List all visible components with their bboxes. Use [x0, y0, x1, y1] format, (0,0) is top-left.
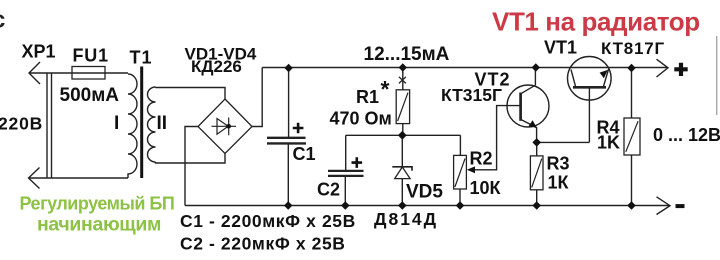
- wire R2 bottom lead: [459, 189, 461, 206]
- svg-text:С1 - 2200мкФ х 25В: С1 - 2200мкФ х 25В: [180, 211, 356, 231]
- junction VT2 emitter R3 VT1 base: [532, 138, 541, 147]
- output minus sign: [676, 204, 685, 208]
- junction bottom rail at R2: [456, 201, 465, 210]
- svg-text:КД226: КД226: [191, 57, 242, 76]
- right edge artifact line: [716, 36, 718, 115]
- wire C2 negative lead: [344, 176, 346, 206]
- transistor VT2 circle: [507, 85, 549, 127]
- svg-text:Д814Д: Д814Д: [374, 209, 438, 229]
- junction bottom rail at C2: [341, 201, 350, 210]
- junction top rail at R4: [627, 64, 635, 72]
- wire mains bottom from plug to transformer: [29, 177, 129, 179]
- svg-text:c: c: [0, 7, 5, 34]
- connector XP1 pin arrow top: [29, 62, 40, 84]
- svg-text:КТ817Г: КТ817Г: [601, 39, 665, 58]
- svg-text:XP1: XP1: [22, 42, 56, 62]
- potentiometer R2 body: [454, 155, 467, 189]
- transformer T1 primary winding I: [128, 74, 137, 178]
- bridge inner diode symbol: [212, 118, 237, 136]
- wire R2 top lead: [459, 135, 461, 155]
- wire break cross mark: [399, 77, 406, 84]
- junction mid node R1 VD5: [398, 131, 407, 140]
- svg-text:VD5: VD5: [406, 182, 443, 203]
- transistor VT2 collector to top rail: [521, 68, 536, 94]
- wire bottom rail minus net: [185, 205, 670, 207]
- wire mains top from plug to fuse and transformer: [29, 72, 128, 74]
- resistor R3 body: [530, 156, 543, 190]
- potentiometer R2 wiper arrow: [467, 166, 475, 173]
- svg-text:VT1 на радиатор: VT1 на радиатор: [492, 7, 700, 37]
- svg-text:R2: R2: [470, 149, 493, 169]
- junction top rail at C1: [284, 64, 292, 72]
- output minus terminal arrow: [657, 197, 671, 215]
- capacitor C1 plates: [267, 138, 306, 144]
- svg-text:R3: R3: [547, 154, 570, 174]
- svg-text:VT1: VT1: [544, 38, 577, 58]
- svg-text:0 ... 12В: 0 ... 12В: [653, 125, 720, 145]
- wire top rail plus net: [262, 67, 667, 69]
- junction top rail at VT2 collector: [532, 63, 540, 71]
- svg-text:С2 - 220мкФ х 25В: С2 - 220мкФ х 25В: [180, 234, 346, 254]
- svg-text:КТ315Г: КТ315Г: [441, 85, 502, 105]
- capacitor C2 polarity plus mark: [352, 157, 363, 168]
- svg-text:R1: R1: [356, 87, 379, 107]
- svg-text:Регулируемый БП: Регулируемый БП: [20, 193, 175, 213]
- resistor R4 body: [624, 118, 640, 155]
- transistor VT2 emitter: [521, 119, 537, 142]
- wire R4 bottom lead: [631, 155, 633, 206]
- svg-text:C2: C2: [317, 180, 340, 200]
- svg-text:I: I: [114, 113, 119, 134]
- connector XP1 double line: [47, 73, 52, 178]
- bridge inner diode dot: [226, 124, 231, 129]
- wire secondary bottom to bridge AC input: [156, 154, 226, 164]
- wire C1 positive lead: [288, 68, 290, 137]
- svg-text:500мА: 500мА: [60, 85, 120, 106]
- capacitor C1 polarity plus mark: [293, 123, 304, 134]
- wire secondary top to bridge AC input: [156, 88, 226, 100]
- transistor VT2 emitter arrow: [529, 120, 537, 128]
- transistor VT1 emitter: [603, 69, 608, 87]
- wire C1 negative lead: [287, 143, 289, 205]
- wire R1 bottom lead: [402, 124, 404, 136]
- transistor VT1 circle: [568, 57, 612, 101]
- wire mid node R1 C2 R2: [346, 134, 461, 136]
- fuse FU1: [72, 67, 105, 80]
- svg-text:470 Ом: 470 Ом: [330, 109, 392, 129]
- transformer T1 secondary winding II: [148, 87, 156, 162]
- transistor VT2 base bar: [519, 93, 522, 121]
- junction top rail at R1: [399, 63, 407, 71]
- junction bottom rail at VD5: [398, 201, 407, 210]
- svg-text:начинающим: начинающим: [37, 213, 161, 235]
- capacitor C2 plates: [328, 171, 364, 176]
- wire C2 positive lead: [345, 135, 347, 170]
- transistor VT1 emitter arrow: [600, 70, 608, 78]
- output plus sign: [674, 63, 687, 76]
- resistor R1 body: [396, 90, 409, 124]
- svg-text:C1: C1: [293, 144, 316, 164]
- svg-text:II: II: [157, 113, 168, 134]
- svg-text:1K: 1K: [597, 133, 620, 153]
- wire R1 top lead: [402, 68, 404, 90]
- wire VD5 anode lead: [401, 179, 403, 206]
- wire R4 top lead: [631, 68, 633, 118]
- svg-text:10К: 10К: [470, 178, 502, 198]
- wire R3 bottom lead: [536, 190, 538, 206]
- zener diode VD5 triangle: [395, 167, 410, 179]
- wire VT2 emitter node to VT1 base: [537, 87, 590, 142]
- transistor VT1 base bar: [573, 86, 606, 89]
- wire R3 top lead: [536, 142, 538, 156]
- transformer T1 core: [140, 67, 143, 179]
- junction bottom rail at R4: [627, 201, 636, 210]
- wire R2 wiper to VT2 base: [471, 106, 521, 170]
- svg-text:220В: 220В: [0, 114, 43, 134]
- svg-text:FU1: FU1: [73, 46, 109, 66]
- svg-text:T1: T1: [130, 48, 153, 68]
- svg-text:1К: 1К: [548, 173, 570, 193]
- transistor VT1 collector: [571, 70, 576, 87]
- connector XP1 pin arrow bottom: [29, 168, 40, 189]
- wire bridge plus output to top rail: [252, 68, 262, 127]
- bridge rectifier VD1-VD4 diamond: [198, 99, 252, 154]
- junction bottom rail at R3: [532, 201, 541, 210]
- wire bridge minus output to bottom rail: [185, 127, 198, 206]
- junction bottom rail at C1: [284, 201, 293, 210]
- svg-text:*: *: [381, 76, 390, 102]
- output plus terminal arrow: [657, 59, 669, 77]
- wire VD5 cathode lead: [401, 135, 403, 167]
- svg-text:12...15мА: 12...15мА: [364, 44, 450, 65]
- zener diode VD5 cathode bar: [392, 167, 412, 171]
